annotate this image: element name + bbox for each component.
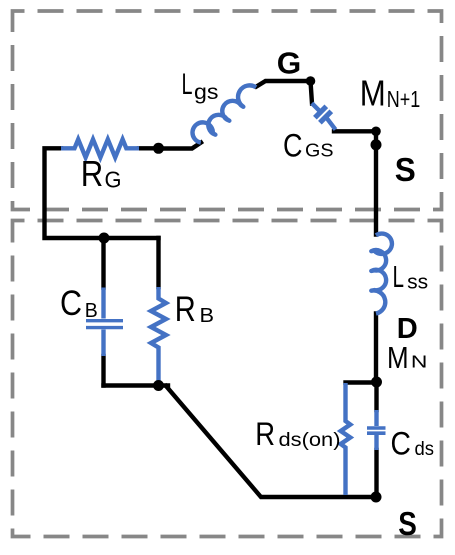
svg-text:C: C — [283, 127, 303, 163]
svg-text:R: R — [81, 153, 104, 194]
svg-text:S: S — [398, 505, 417, 542]
svg-text:M: M — [387, 340, 409, 375]
svg-text:ds: ds — [415, 439, 435, 460]
svg-text:L: L — [393, 259, 405, 294]
svg-text:ss: ss — [407, 271, 428, 293]
svg-text:R: R — [255, 416, 275, 452]
svg-text:N: N — [411, 352, 428, 372]
svg-text:G: G — [277, 46, 302, 81]
svg-text:C: C — [60, 284, 82, 323]
svg-text:gs: gs — [194, 81, 219, 104]
svg-text:N+1: N+1 — [387, 86, 421, 112]
svg-text:R: R — [175, 290, 196, 329]
svg-text:B: B — [85, 300, 98, 322]
svg-text:GS: GS — [305, 140, 334, 160]
svg-text:G: G — [105, 167, 122, 193]
svg-text:B: B — [200, 305, 215, 327]
svg-text:L: L — [182, 68, 193, 101]
svg-text:S: S — [395, 151, 416, 188]
svg-text:C: C — [391, 425, 411, 461]
svg-text:ds(on): ds(on) — [279, 429, 341, 451]
svg-text:M: M — [360, 73, 386, 114]
